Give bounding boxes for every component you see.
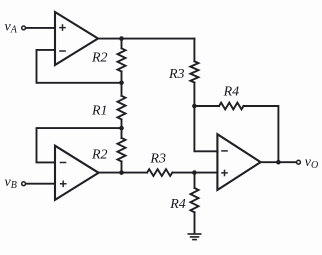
svg-text:R2: R2: [91, 147, 108, 162]
svg-text:R4: R4: [223, 84, 240, 99]
svg-text:vO: vO: [305, 155, 318, 171]
svg-text:R1: R1: [91, 104, 108, 119]
svg-text:R3: R3: [149, 152, 166, 167]
svg-text:vA: vA: [5, 19, 18, 35]
svg-text:R4: R4: [169, 197, 186, 212]
svg-text:vB: vB: [5, 175, 17, 191]
svg-text:R3: R3: [168, 67, 185, 82]
svg-text:R2: R2: [91, 51, 108, 66]
